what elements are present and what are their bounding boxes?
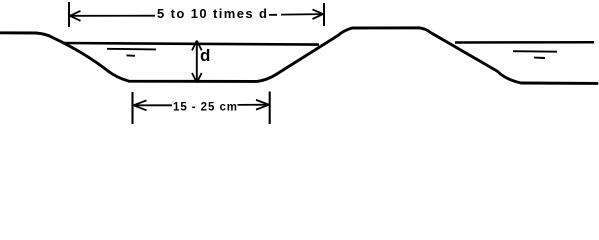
svg-text:15 - 25 cm: 15 - 25 cm	[173, 102, 237, 114]
svg-text:5 to 10 times d: 5 to 10 times d	[157, 6, 267, 21]
svg-text:d: d	[200, 46, 210, 65]
